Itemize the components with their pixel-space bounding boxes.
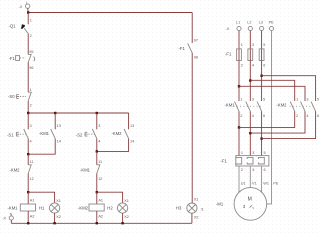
svg-text:3: 3	[98, 124, 100, 128]
interlock contact KM1 11-12	[80, 160, 102, 181]
wire rail2 to S2	[96, 113, 98, 129]
svg-text:4: 4	[306, 114, 308, 118]
terminal -X L3	[259, 21, 264, 31]
contact F1 97-98	[179, 39, 199, 60]
wire control rail 2	[28, 112, 128, 114]
svg-text:5: 5	[317, 98, 319, 102]
svg-text:X2: X2	[124, 215, 129, 219]
svg-text:5: 5	[264, 151, 266, 155]
node lamp H1 branch	[27, 191, 29, 193]
node L2 branch	[249, 79, 251, 81]
svg-text:-X: -X	[2, 217, 6, 221]
svg-text:1: 1	[240, 98, 242, 102]
fuse F1 pole 2	[248, 43, 254, 67]
svg-text:W1: W1	[263, 181, 269, 185]
wire lamp H2 to bottom rail	[122, 213, 124, 223]
svg-text:PE: PE	[273, 181, 279, 185]
node rail tap	[27, 11, 29, 13]
fuse F1 pole 3	[259, 43, 265, 67]
terminal -X L1	[236, 21, 241, 31]
svg-text:-S1: -S1	[7, 132, 14, 137]
contact KM2 13-14	[112, 124, 135, 143]
wire KM2 aux to connector2	[97, 139, 129, 152]
node rail2 S2 tap	[96, 112, 98, 114]
svg-text:3: 3	[252, 43, 254, 47]
lamp H2	[107, 199, 129, 219]
svg-text:-Q1: -Q1	[9, 23, 17, 28]
svg-text:-F1: -F1	[179, 46, 186, 51]
svg-text:3: 3	[252, 98, 254, 102]
wire lamp H2 branch	[97, 192, 123, 203]
node bottom coil KM1	[27, 222, 29, 224]
wire connector to KM2 interlock	[27, 154, 29, 165]
terminal -X L2	[247, 21, 252, 31]
motor M1	[216, 188, 267, 221]
svg-text:4: 4	[98, 139, 100, 143]
node T3 join	[260, 137, 262, 139]
svg-text:6: 6	[317, 114, 319, 118]
interlock contact KM2 11-12	[10, 160, 34, 181]
wire L2 cross to KM2 pole1	[250, 80, 294, 101]
svg-text:12: 12	[30, 177, 34, 181]
contactor KM2 main contacts	[277, 98, 320, 118]
overload NC contact F1 95-96	[9, 50, 35, 70]
lamp H1	[39, 199, 61, 219]
node lamp H2 branch	[96, 191, 98, 193]
wire node to coil KM1	[27, 192, 29, 204]
svg-text:1: 1	[241, 43, 243, 47]
wire KM1 pole2 to overload	[249, 111, 251, 155]
svg-text:L1: L1	[236, 21, 240, 25]
svg-text:1: 1	[241, 151, 243, 155]
svg-text:-KM1: -KM1	[8, 206, 19, 211]
svg-text:H2: H2	[107, 205, 113, 210]
wire overload to motor W1	[261, 166, 263, 193]
svg-text:14: 14	[130, 139, 134, 143]
svg-text:-F1: -F1	[9, 56, 16, 61]
node L1 branch	[238, 85, 240, 87]
svg-text:-X: -X	[19, 5, 23, 9]
svg-text:-F1: -F1	[221, 158, 228, 163]
svg-text:13: 13	[57, 124, 61, 128]
wire KM2 pole2 out join T1	[239, 111, 295, 127]
svg-text:1: 1	[30, 88, 32, 92]
terminal -X N (neutral)	[2, 212, 13, 220]
svg-text:-KM2: -KM2	[10, 168, 21, 173]
fuse F1 pole 1	[225, 43, 243, 67]
svg-text:-KM1: -KM1	[39, 131, 50, 136]
coil KM2	[78, 199, 104, 219]
svg-text:1: 1	[30, 19, 32, 23]
wire S0 to rail2	[27, 101, 29, 113]
svg-text:H1: H1	[39, 205, 45, 210]
wire top rail L	[28, 12, 192, 14]
svg-text:4: 4	[252, 114, 254, 118]
svg-text:12: 12	[98, 177, 102, 181]
wire L1 to fuse	[238, 31, 240, 49]
node bottom lamp H2	[121, 222, 123, 224]
wire rail2 corner to KM2 aux	[128, 113, 130, 129]
svg-text:5: 5	[263, 43, 265, 47]
svg-text:1: 1	[296, 98, 298, 102]
svg-text:2: 2	[296, 114, 298, 118]
svg-text:98: 98	[194, 55, 198, 59]
wire connector2 to KM1 interlock	[96, 151, 98, 164]
svg-text:2: 2	[241, 168, 243, 172]
svg-text:6: 6	[264, 168, 266, 172]
wire PE down to motor	[267, 31, 272, 204]
svg-text:V1: V1	[252, 181, 257, 185]
svg-text:4: 4	[252, 168, 254, 172]
svg-text:-S0: -S0	[8, 94, 15, 99]
breaker Q1	[9, 19, 32, 39]
e-stop S0	[8, 88, 32, 108]
svg-text:X1: X1	[124, 199, 129, 203]
wire node to Q1 pin1	[27, 13, 29, 25]
node rail2 S1 tap	[27, 112, 29, 114]
svg-text:-X: -X	[226, 27, 230, 31]
wire terminal N to bottom rail	[10, 220, 12, 223]
svg-text:X1: X1	[56, 199, 61, 203]
terminal -X PE	[269, 21, 275, 31]
wire KM1 pole1 to overload	[238, 111, 240, 155]
svg-text:2: 2	[240, 114, 242, 118]
wire lamp H1 branch	[28, 192, 54, 203]
lamp H3	[176, 197, 204, 219]
wire KM2 pole6 out join T3	[262, 111, 316, 138]
svg-text:5: 5	[263, 98, 265, 102]
svg-text:L2: L2	[247, 21, 251, 25]
wire L1 cross to KM2 pole2	[239, 86, 305, 101]
svg-text:3: 3	[252, 151, 254, 155]
wire Q1 to F1	[27, 34, 29, 55]
pushbutton S2	[76, 124, 101, 143]
wire rail2 to S1	[27, 113, 29, 129]
node bottom lamp H1	[53, 222, 55, 224]
node T1 join	[238, 126, 240, 128]
wire L2 to fuse	[249, 31, 251, 49]
svg-text:3: 3	[30, 124, 32, 128]
wire L3 cross to KM2 pole3	[262, 76, 316, 101]
node rail2 KM1 aux tap	[54, 112, 56, 114]
wire bottom rail N	[11, 222, 192, 224]
wire rail L corner down to F1 97	[191, 13, 193, 44]
svg-text:11: 11	[98, 160, 102, 164]
pushbutton S1	[7, 124, 32, 143]
svg-text:6: 6	[263, 114, 265, 118]
wire coil KM1 to bottom rail	[27, 211, 29, 223]
wire fuse1 to KM1 pole1	[238, 61, 240, 102]
wire terminal L to node	[27, 8, 30, 12]
svg-text:-KM2: -KM2	[277, 103, 288, 108]
svg-text:6: 6	[263, 63, 265, 67]
wire KM2 interlock to coil node	[27, 174, 29, 193]
svg-text:-KM1: -KM1	[80, 168, 91, 173]
svg-text:-KM1: -KM1	[225, 103, 236, 108]
svg-text:13: 13	[130, 124, 134, 128]
wire KM2 pole4 out join T2	[250, 111, 305, 133]
svg-text:X2: X2	[56, 215, 61, 219]
terminal -X L (line)	[19, 1, 30, 9]
wire fuse3 to KM1 pole3	[261, 61, 263, 102]
svg-text:97: 97	[194, 39, 198, 43]
svg-text:4: 4	[252, 63, 254, 67]
contactor KM1 main contacts	[225, 98, 266, 118]
wire coil KM2 to bottom rail	[96, 211, 98, 223]
coil KM1	[8, 199, 36, 219]
node connector2 S2 branch	[96, 150, 98, 152]
svg-text:A1: A1	[98, 199, 103, 203]
svg-text:H3: H3	[176, 206, 182, 211]
svg-text:95: 95	[29, 50, 33, 54]
node T2 join	[249, 132, 251, 134]
node L3 branch	[260, 75, 262, 77]
svg-text:-S2: -S2	[76, 132, 83, 137]
svg-text:-F1: -F1	[225, 51, 232, 56]
svg-text:-KM2: -KM2	[78, 206, 89, 211]
overload relay F1 box	[221, 151, 269, 172]
svg-text:X1: X1	[194, 197, 199, 201]
svg-text:2: 2	[30, 34, 32, 38]
wire rail2 to KM1 aux	[54, 113, 56, 129]
wire node to coil KM2	[96, 192, 98, 204]
svg-text:2: 2	[241, 63, 243, 67]
wire F1 98 to lamp H3	[191, 53, 193, 203]
svg-text:A1: A1	[30, 199, 35, 203]
wire S1 to connector	[27, 139, 29, 155]
wire overload to motor V1	[249, 166, 251, 188]
svg-text:A2: A2	[98, 215, 103, 219]
wire KM1 interlock to coil node2	[96, 174, 98, 193]
node bottom coil KM2	[96, 222, 98, 224]
wire fuse2 to KM1 pole2	[249, 61, 251, 102]
svg-text:11: 11	[30, 160, 34, 164]
wire lamp H3 to bottom rail	[191, 213, 193, 223]
wire overload to motor U1	[238, 166, 240, 193]
svg-text:96: 96	[29, 66, 33, 70]
svg-text:M: M	[248, 196, 252, 202]
svg-text:2: 2	[30, 103, 32, 107]
wire KM1 aux to connector	[28, 139, 55, 155]
svg-text:PE: PE	[269, 21, 275, 25]
svg-text:X2: X2	[194, 216, 199, 220]
svg-text:-M1: -M1	[216, 201, 224, 206]
svg-text:A2: A2	[30, 215, 35, 219]
svg-text:L3: L3	[259, 21, 263, 25]
wire F1 to S0	[27, 62, 29, 92]
node connector S1 branch	[27, 153, 29, 155]
wire S2 to connector2	[96, 139, 98, 152]
svg-text:/1: /1	[201, 207, 204, 211]
svg-text:U1: U1	[241, 181, 246, 185]
wire KM1 pole3 to overload	[261, 111, 263, 155]
svg-text:14: 14	[57, 139, 61, 143]
contact KM1 13-14	[39, 124, 61, 143]
svg-text:3: 3	[306, 98, 308, 102]
svg-text:4: 4	[30, 139, 32, 143]
svg-text:-KM2: -KM2	[112, 131, 123, 136]
wire L3 to fuse	[261, 31, 263, 49]
wire lamp H1 to bottom rail	[54, 213, 56, 223]
